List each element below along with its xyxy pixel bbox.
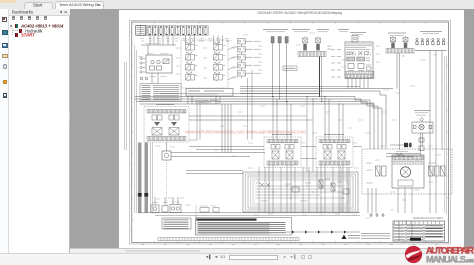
riser pair 1 with connector: [271, 37, 274, 44]
long feed wire right C: [441, 51, 443, 151]
fuse F2: [421, 38, 423, 44]
A2 internal small marks: [348, 58, 371, 71]
fuse F6: [442, 38, 444, 44]
panel resize handle: [69, 113, 72, 122]
bottom long bus wire: [138, 212, 360, 214]
pump block bottom wires: [368, 188, 412, 213]
title block text entries: [394, 226, 405, 240]
junction enclosure inner: [253, 180, 348, 204]
fuse bus bar: [415, 50, 447, 52]
lamp H1: [151, 60, 154, 63]
drawing frame outer trim: [130, 20, 451, 244]
gauge P2: [170, 205, 181, 213]
A1 drop wires to bus: [188, 96, 220, 104]
A2 output wires: [348, 79, 368, 89]
manifold top connector bar: [147, 110, 186, 114]
engine control block A2: [345, 42, 373, 78]
wire drops from control box: [151, 73, 153, 83]
sensor bottom wires: [386, 153, 420, 155]
controller box A1: [186, 89, 233, 97]
terminal strip first cell table: [136, 26, 146, 36]
relay K14: [292, 187, 299, 192]
bus junction dots: [271, 95, 274, 98]
sensor side contacts: [413, 126, 416, 129]
wire risers to relay columns: [186, 36, 223, 45]
relay K1: [186, 43, 198, 51]
ground symbol G1: [369, 213, 372, 216]
enclosure internal wires: [255, 185, 345, 187]
title block table: [393, 221, 445, 241]
solenoid valve Y7: [323, 145, 332, 160]
ignition switch S10: [303, 37, 308, 51]
fuse F5: [437, 38, 439, 44]
fuse F1: [416, 38, 418, 44]
sidebar icon: pages: [2, 43, 8, 48]
sidebar icon: measure: [3, 93, 8, 98]
junction enclosure nest 4: [246, 174, 356, 210]
frame-side feed wire: [444, 56, 446, 213]
component labels left block: [138, 44, 168, 77]
center manifold A label: [272, 134, 292, 136]
relay K0: [163, 59, 169, 64]
pump block enclosure: [362, 149, 452, 194]
column header label 26_PIN_CAB: [292, 29, 310, 31]
gauge P1: [151, 205, 159, 213]
tree row 3: [15, 33, 18, 37]
status bar controls: [205, 255, 212, 259]
wire bus upper-left: [141, 44, 176, 46]
wire number labels below strip: [140, 39, 229, 42]
A2 bottom connector bar: [345, 75, 374, 79]
watermark logo red disc: [405, 246, 422, 263]
switch S1: [150, 66, 155, 70]
pump inner rect: [398, 180, 413, 186]
sidebar icon: security lock: [3, 80, 8, 85]
terminal strip X1 header row: [136, 26, 209, 36]
hydraulic pump label: [388, 32, 406, 34]
main feed wire pair: [319, 57, 321, 97]
A2 internal connector rows: [347, 57, 355, 61]
left margin terminal symbols: [140, 57, 145, 73]
center manifold B bottom bar: [319, 161, 350, 165]
manifold riser wires: [273, 97, 343, 140]
notes text block left: [140, 84, 181, 102]
sensor B1 wires: [166, 142, 168, 151]
harness junction blocks: [138, 193, 142, 197]
harness cable bar left A: [138, 143, 142, 213]
frame grid tick marks left: [132, 22, 134, 220]
tab: Start: [24, 2, 53, 10]
relay K2: [186, 53, 198, 61]
panel toolbar: five page icons: [12, 16, 15, 20]
small component row mid: [200, 208, 209, 213]
solenoid valve Y1: [391, 36, 396, 48]
speed sensor B2: [419, 124, 424, 129]
fuse row label: [420, 31, 442, 33]
junction enclosure outer: [243, 172, 358, 212]
center manifold A enclosure: [264, 137, 301, 168]
manifold bottom connector bar: [147, 137, 186, 141]
harness cable bar left B: [145, 143, 149, 213]
svg-text:C:\DOKUME~1\TEREX~1\LOKALE~1\T: C:\DOKUME~1\TEREX~1\LOKALE~1\Temp\TEREX …: [257, 11, 342, 15]
sidebar icon: bookmarks: [2, 17, 7, 23]
warning triangle note: [342, 235, 347, 239]
A2 label second line: [352, 34, 363, 36]
bottom device wires: [155, 197, 178, 205]
valve feed wires: [396, 53, 398, 89]
bus staircase to pump block: [355, 91, 386, 149]
frame grid tick marks top: [132, 22, 426, 24]
terminal strip top/bottom edge marks: [138, 26, 207, 35]
resistor R1: [396, 153, 404, 156]
annotation speckles: [150, 33, 441, 218]
relay K6: [214, 53, 226, 61]
extra bus lines: [160, 87, 360, 94]
relay K4: [186, 73, 198, 81]
relay K8: [214, 73, 226, 81]
relay K3: [186, 63, 198, 71]
A2 internal relays: [348, 64, 354, 69]
switch S3: [162, 206, 168, 213]
left frame grid letters: [130, 32, 131, 230]
relay K5: [214, 43, 226, 51]
column header label HYDRAULIKOEL: [317, 29, 329, 31]
frame bottom notes: [361, 234, 390, 239]
svg-text:MANUALS.ws: MANUALS.ws: [426, 255, 474, 265]
proportional valve Y3: [152, 115, 162, 135]
speed sensor label DREHZAHLGEBER: [414, 110, 430, 112]
small notes block: [162, 218, 191, 229]
mini valve Y10: [331, 183, 335, 191]
fuse F4: [432, 38, 434, 44]
below-frame grid labels: [141, 244, 438, 246]
A2 internal contact X marks: [351, 51, 363, 55]
A2 label: [350, 32, 366, 34]
white page: [119, 10, 464, 248]
cross wires center: [186, 147, 362, 174]
pump assembly housing: [392, 155, 424, 188]
pressure sensor B1: [162, 151, 171, 160]
column header label KUEHLER: [338, 29, 349, 31]
relay K15: [343, 189, 349, 194]
ignition switch S11: [316, 37, 321, 51]
ignition group connector bar: [298, 52, 326, 57]
lamp H3: [140, 77, 143, 80]
left control box E1: [146, 55, 172, 73]
svg-text:Gedruckt am 5.07.2004: Gedruckt am 5.07.2004: [413, 216, 443, 220]
A2 secondary bar: [345, 71, 374, 73]
relay group enclosure: [181, 40, 228, 88]
dashed separation line: [195, 205, 197, 236]
center manifold A bottom bar: [267, 161, 298, 165]
wire label box mid-left 2: [210, 100, 218, 104]
wire risers below terminal strip: [150, 36, 173, 46]
tree row 1: [10, 25, 12, 27]
ground symbol G2: [375, 213, 378, 216]
relay pin number dots: [186, 42, 220, 73]
transistor Q1: [352, 36, 358, 43]
solenoid valve Y6: [285, 145, 294, 160]
sensor wires: [420, 133, 422, 155]
lamp H2: [157, 60, 160, 63]
oil sensor wire: [390, 144, 412, 146]
riser pair 3 with connector: [285, 37, 288, 44]
label box battery: [283, 66, 297, 71]
bottom connector strip X2: [158, 238, 299, 241]
bottom connector arrows wire: [285, 231, 360, 233]
ground symbol G3: [381, 213, 384, 216]
solenoid valve Y8: [337, 145, 346, 160]
frame grid tick marks bottom: [132, 241, 426, 243]
manifold output wires: [189, 115, 250, 117]
pump labels: [366, 152, 436, 184]
large legend notes block: [196, 218, 292, 236]
left margin harness wires: [134, 45, 136, 213]
junction enclosure middle: [248, 176, 353, 208]
page margin wire pair: [124, 62, 126, 150]
center dots grid: [268, 185, 271, 188]
tree guide lines: [12, 28, 14, 36]
terminal label column right: [331, 50, 341, 78]
relay column drop wires: [247, 78, 249, 140]
relay column K9-K13: [238, 39, 262, 47]
pump motor M1: [400, 167, 410, 177]
center manifold B top bar: [319, 140, 350, 143]
solenoid valve Y5: [271, 145, 280, 160]
wire pair below A1: [196, 104, 198, 140]
title block logo cell: [410, 238, 421, 241]
svg-text:WWW.AUTOREPAIRMANUALS.WS WWW.: WWW.AUTOREPAIRMANUALS.WS WWW.AUTOREPAIRM…: [185, 130, 306, 135]
pump side valve Y12: [429, 166, 446, 176]
vertical drop pair center: [306, 97, 308, 173]
center manifold B enclosure: [316, 137, 353, 168]
speed sensor bracket: [412, 122, 433, 133]
extra enclosure verticals: [259, 167, 349, 212]
sidebar icon: signature: [2, 54, 8, 59]
ignition group side marks: [328, 45, 332, 47]
switch S2: [157, 66, 162, 70]
schematic SVG goes here: [119, 10, 464, 248]
junction enclosure nest 5: [251, 178, 351, 206]
bottom device labels: [152, 202, 216, 206]
mini valve Y9: [319, 180, 323, 188]
center manifold A top bar: [267, 140, 298, 143]
contact X pair: [260, 183, 270, 187]
relay K7: [214, 63, 226, 71]
enclosure pass-through wires: [303, 167, 347, 213]
valve manifold MV-PUMPE label: [156, 104, 174, 106]
manifold wire extensions: [250, 115, 307, 117]
sensor lower rects: [419, 138, 424, 142]
wire label box mid-left: [196, 100, 208, 104]
column header label 26_PIN_SYSTEM: [263, 29, 288, 31]
A2 internal top wires: [346, 44, 372, 49]
frame grid tick marks right: [447, 22, 449, 220]
A2 internal mini rects: [347, 52, 350, 55]
riser pair 2 with connector: [278, 37, 281, 44]
panel header: [9, 9, 70, 16]
tree row 2: [19, 29, 22, 33]
pump top connector bar: [393, 156, 423, 160]
long feed wire right B: [435, 51, 437, 214]
oil level sensor B3: [404, 143, 408, 147]
manifold drop wires: [269, 165, 343, 213]
lamp H4: [145, 77, 148, 80]
title block company text: [425, 226, 443, 237]
manifold enclosure: [144, 107, 189, 143]
valve connector bar: [386, 49, 414, 54]
harness side wires: [150, 143, 152, 213]
pump second bar: [393, 162, 423, 165]
fuse F3: [427, 38, 429, 44]
wire labels right of relays: [228, 47, 238, 80]
title block tick row: [395, 221, 440, 225]
proportional valve Y4: [169, 115, 179, 135]
sensor diamond marks: [420, 118, 423, 122]
pump side valve Y11: [376, 166, 387, 176]
A2 inner hatch texture: [347, 52, 370, 56]
enclosure labels: [256, 179, 342, 201]
solenoid valve Y2: [403, 36, 408, 48]
center manifold B label: [324, 134, 344, 136]
tab: document (active): [55, 1, 104, 10]
long feed wire right A: [429, 51, 431, 214]
main horizontal wire bus: [135, 89, 393, 105]
drawing frame inner border: [132, 22, 449, 243]
sidebar icon: attachment: [3, 64, 7, 70]
sidebar icon: layers: [2, 30, 8, 36]
harness wires to sensor: [222, 104, 231, 153]
